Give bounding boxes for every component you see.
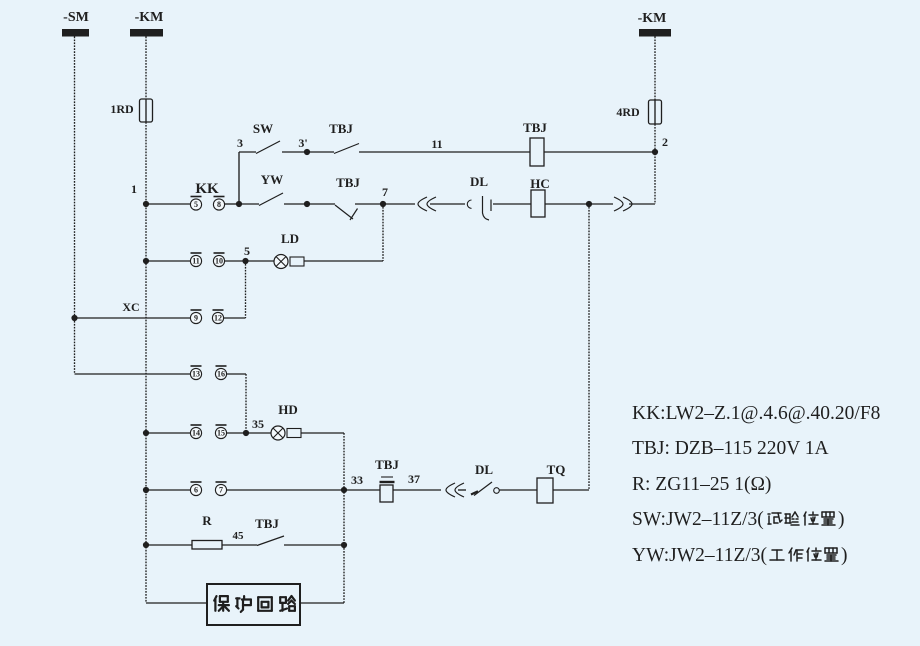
node HD row junction — [143, 430, 149, 436]
control switch KK contacts 11-10 — [191, 252, 202, 254]
switch YW contact — [259, 193, 283, 206]
wire KK to riser (flash row) — [224, 317, 246, 319]
contact TBJ (NO, top) lead — [307, 151, 334, 153]
wire connector to DL NO — [458, 489, 466, 491]
svg-text:SW: SW — [253, 121, 273, 136]
svg-text:11: 11 — [192, 257, 200, 266]
svg-text:37: 37 — [408, 472, 420, 486]
svg-text:TBJ: TBJ — [329, 121, 353, 136]
legend YW cjk 作 — [789, 548, 792, 553]
legend SW cjk 验 — [785, 513, 790, 515]
contactor coil HC — [531, 190, 545, 217]
control switch KK contacts 9-12 — [191, 309, 202, 311]
node LD row junction — [143, 258, 149, 264]
svg-text:YW:JW2–11Z/3(: YW:JW2–11Z/3( — [632, 545, 767, 566]
wire KK to node 33 — [227, 489, 345, 491]
wire node35 to lamp — [246, 432, 271, 434]
node SM row junction — [71, 315, 77, 321]
node 3p junction — [304, 149, 310, 155]
node 35 junction — [243, 430, 249, 436]
wire +SM vertical — [74, 37, 76, 319]
svg-text:DL: DL — [475, 462, 493, 477]
wire box to right riser — [300, 602, 344, 604]
svg-text:-KM: -KM — [638, 11, 667, 26]
svg-text:4RD: 4RD — [616, 105, 640, 119]
wire KK to riser (row4) — [227, 373, 247, 375]
wire KM to R — [146, 544, 192, 546]
svg-text:TBJ: TBJ — [255, 516, 279, 531]
control switch KK contacts 5-8 — [191, 196, 202, 198]
wire node5 riser — [245, 261, 247, 318]
wire +SM vertical lower — [74, 318, 76, 374]
relay coil TBJ (voltage) — [530, 138, 544, 166]
breaker aux contact DL (NO) tick — [471, 491, 478, 494]
wire node1 to KK — [146, 203, 191, 205]
wire 37 — [393, 489, 441, 491]
svg-text:TBJ: DZB–115 220V 1A: TBJ: DZB–115 220V 1A — [632, 438, 829, 459]
wire TQ to riser — [553, 489, 589, 491]
legend SW cjk 试 — [768, 513, 770, 515]
trip coil TQ — [537, 478, 553, 503]
breaker aux contact DL (NO) moving — [474, 482, 492, 496]
svg-text:): ) — [841, 545, 848, 566]
wire TBJ contact to riser — [284, 544, 344, 546]
svg-text:-KM: -KM — [135, 10, 164, 25]
bus +SM bar — [62, 29, 89, 37]
wire -KM vertical upper — [654, 37, 656, 101]
svg-text:KK: KK — [195, 181, 219, 197]
wire SM elbow row4 — [75, 373, 192, 375]
contact TBJ (NO, seal-in) — [257, 536, 284, 546]
svg-text:YW: YW — [261, 172, 283, 187]
svg-text:45: 45 — [233, 530, 245, 542]
protection circuit box — [207, 584, 300, 625]
switch SW lead — [239, 151, 256, 153]
node 1 junction — [143, 201, 149, 207]
lamp LD (green) with resistor — [274, 255, 288, 269]
wire row4 riser — [245, 374, 247, 433]
relay coil TBJ (current) bar2 — [380, 481, 395, 483]
svg-text:6: 6 — [194, 486, 198, 495]
svg-text:13: 13 — [192, 370, 200, 379]
svg-text:7: 7 — [382, 185, 388, 199]
legend YW cjk 位 — [807, 548, 809, 552]
contact TBJ (NC) moving — [335, 205, 353, 219]
wire KK to junction — [225, 203, 240, 205]
wire KM bottom elbow — [146, 602, 207, 604]
node HC/TQ junction — [586, 201, 592, 207]
legend YW cjk 工 — [772, 549, 782, 551]
breaker aux contact DL (NC) left — [467, 200, 471, 208]
node 3p lower junction — [304, 201, 310, 207]
svg-text:HD: HD — [278, 402, 298, 417]
svg-text:11: 11 — [431, 137, 442, 151]
legend SW cjk 位 — [804, 512, 806, 516]
control switch KK contacts 13-16 — [191, 365, 202, 367]
node R row right junction — [341, 542, 347, 548]
wire -KM vertical lower — [654, 124, 656, 204]
svg-text:8: 8 — [217, 200, 221, 209]
breaker aux contact DL (NC) moving — [483, 196, 490, 220]
connector plug (to -KM) — [614, 197, 623, 211]
node 5 junction — [242, 258, 248, 264]
wire TBJ coil to node 2 — [544, 151, 655, 153]
svg-text:DL: DL — [470, 174, 488, 189]
wire KM to KK (trip row) — [146, 489, 191, 491]
wire SW to node 3p — [282, 151, 307, 153]
wire +KM vertical upper — [145, 37, 147, 100]
wire node7 to connector — [383, 203, 415, 205]
contact TBJ (NO, top) — [334, 144, 359, 154]
resistor R — [192, 541, 222, 550]
wire LD to node7 riser — [304, 260, 383, 262]
protection circuit text 保 — [214, 596, 216, 601]
wire +KM vertical main — [145, 122, 147, 603]
svg-text:): ) — [838, 509, 845, 530]
wire KM to KK (HD row) — [146, 432, 191, 434]
svg-text:TBJ: TBJ — [336, 175, 360, 190]
node 33 junction — [341, 487, 347, 493]
wire node33 to TBJ coil — [344, 489, 380, 491]
svg-text:XC: XC — [122, 300, 139, 314]
svg-text:3: 3 — [237, 136, 243, 150]
svg-text:12: 12 — [214, 314, 222, 323]
breaker aux contact DL (NO) fixed — [494, 488, 500, 494]
svg-text:TBJ: TBJ — [375, 457, 399, 472]
svg-text:R: R — [202, 513, 212, 528]
wire TBJ NC to node 7 — [355, 203, 383, 205]
wire right riser — [343, 433, 345, 603]
svg-text:3': 3' — [298, 136, 307, 150]
fuse 1RD — [140, 99, 153, 122]
switch YW lead — [239, 203, 259, 205]
wire node5 to lamp — [246, 260, 275, 262]
node R row junction — [143, 542, 149, 548]
wire 11 — [359, 151, 530, 153]
wire DL to TQ coil — [500, 489, 538, 491]
svg-text:R: ZG11–25 1(Ω): R: ZG11–25 1(Ω) — [632, 474, 771, 495]
node 2 junction — [652, 149, 658, 155]
wire KM to KK (LD row) — [146, 260, 191, 262]
svg-text:10: 10 — [215, 257, 223, 266]
svg-text:TBJ: TBJ — [523, 120, 547, 135]
protection circuit text 回 — [258, 596, 272, 598]
control switch KK contacts 14-15 — [191, 424, 202, 426]
node 7 junction — [380, 201, 386, 207]
contact TBJ (NC) bar — [350, 209, 358, 221]
svg-text:7: 7 — [219, 486, 223, 495]
wire node7 riser — [382, 204, 384, 261]
svg-text:14: 14 — [192, 429, 200, 438]
wire connector to DL — [430, 203, 465, 205]
svg-text:35: 35 — [252, 417, 264, 431]
connector plug (trip circuit) — [446, 483, 455, 497]
wire node3 vertical — [238, 152, 240, 204]
contact TBJ (NC) lead — [307, 203, 335, 205]
svg-text:SW:JW2–11Z/3(: SW:JW2–11Z/3( — [632, 509, 764, 530]
legend YW cjk 置 — [825, 547, 837, 549]
svg-text:2: 2 — [662, 135, 668, 149]
node trip row junction — [143, 487, 149, 493]
wire junction to connector — [589, 203, 613, 205]
svg-text:1: 1 — [131, 182, 137, 196]
svg-text:HC: HC — [530, 176, 550, 191]
node SW/YW split junction — [236, 201, 242, 207]
connector plug (closing circuit) — [418, 197, 427, 211]
wire KK to node 5 — [225, 260, 246, 262]
wire HC coil to junction — [545, 203, 589, 205]
svg-text:TQ: TQ — [547, 462, 566, 477]
wire connector to -KM bus — [629, 203, 655, 205]
lamp HD (red) with resistor — [271, 426, 285, 440]
wire YW to node 3p — [284, 203, 307, 205]
fuse 4RD — [649, 100, 662, 124]
wire TQ riser — [588, 204, 590, 490]
wire R to TBJ contact — [222, 544, 257, 546]
fuse 1RD inner wire — [145, 99, 147, 122]
fuse 4RD inner wire — [654, 100, 656, 124]
wire KK to node 35 — [227, 432, 247, 434]
bus +KM bar — [130, 29, 163, 37]
wire SM to KK (flash row) — [75, 317, 191, 319]
control switch KK contacts 6-7 — [191, 481, 202, 483]
svg-text:16: 16 — [217, 370, 225, 379]
wire DL to HC coil — [493, 203, 531, 205]
svg-text:5: 5 — [194, 200, 198, 209]
bus -KM bar — [639, 29, 671, 37]
switch SW contact — [256, 141, 280, 154]
relay coil TBJ (current) bar1 — [381, 476, 393, 478]
protection circuit text 路 — [280, 596, 286, 598]
relay coil TBJ (current) box — [380, 485, 393, 502]
svg-text:15: 15 — [217, 429, 225, 438]
protection circuit text 护 — [236, 597, 239, 599]
legend SW cjk 置 — [822, 511, 834, 513]
svg-text:33: 33 — [351, 473, 363, 487]
svg-text:-SM: -SM — [63, 10, 89, 25]
svg-text:9: 9 — [194, 314, 198, 323]
breaker aux contact DL (NC) right — [490, 200, 492, 212]
svg-text:1RD: 1RD — [110, 102, 134, 116]
svg-text:LD: LD — [281, 231, 299, 246]
svg-text:KK:LW2–Z.1@.4.6@.40.20/F8: KK:LW2–Z.1@.4.6@.40.20/F8 — [632, 403, 880, 424]
svg-text:5: 5 — [244, 244, 250, 258]
wire HD to right riser — [301, 432, 344, 434]
